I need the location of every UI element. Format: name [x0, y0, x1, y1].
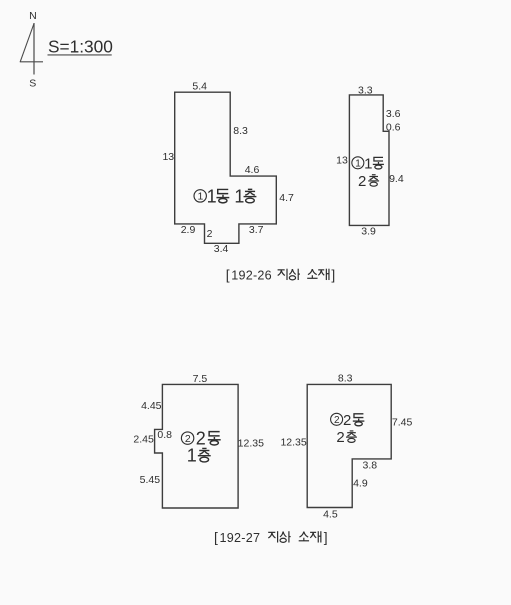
svg-text:7.45: 7.45 [392, 416, 413, 428]
svg-text:1: 1 [355, 158, 361, 169]
north arrow: shaft [33, 23, 35, 75]
svg-text:[: [ [214, 530, 218, 545]
svg-text:5.45: 5.45 [140, 474, 161, 486]
svg-text:192-27: 192-27 [220, 531, 261, 545]
svg-text:]: ] [324, 530, 328, 545]
label b4: 2동 [343, 412, 364, 429]
svg-text:]: ] [331, 267, 335, 282]
svg-text:5.4: 5.4 [192, 81, 207, 93]
svg-text:8.3: 8.3 [338, 372, 353, 384]
svg-text:192-26: 192-26 [231, 268, 272, 282]
svg-text:12.35: 12.35 [238, 438, 264, 450]
svg-text:S: S [29, 78, 36, 90]
svg-text:S=1:300: S=1:300 [48, 37, 113, 57]
svg-text:13: 13 [336, 155, 348, 167]
label b2: 2층 [358, 173, 379, 190]
svg-text:8.3: 8.3 [233, 125, 248, 137]
svg-text:4.7: 4.7 [279, 192, 294, 204]
caption 192-26 [226, 267, 335, 282]
svg-text:4.5: 4.5 [323, 509, 338, 521]
label b4: circled 2 [331, 413, 343, 426]
svg-text:0.6: 0.6 [386, 122, 401, 134]
label b2: circled 1 [352, 157, 364, 170]
svg-text:12.35: 12.35 [280, 437, 306, 449]
svg-text:2: 2 [207, 228, 213, 240]
svg-text:2: 2 [185, 433, 191, 445]
label b4: 2층 [336, 429, 356, 446]
svg-text:N: N [29, 10, 37, 22]
north arrow: crossbar [20, 61, 43, 63]
scale underline [48, 54, 112, 56]
building 3 outline (2-dong 1F) [155, 384, 239, 508]
building 4 outline (2-dong 2F) [307, 384, 391, 507]
svg-text:2.9: 2.9 [181, 224, 196, 236]
svg-text:1: 1 [187, 446, 197, 466]
building 2 outline (1-dong 2F) [349, 95, 389, 226]
svg-text:7.5: 7.5 [193, 373, 208, 385]
svg-text:3.6: 3.6 [386, 108, 401, 120]
svg-text:2: 2 [334, 415, 340, 426]
svg-text:2.45: 2.45 [133, 434, 154, 446]
label b3: 1층 [187, 446, 211, 466]
svg-text:3.9: 3.9 [361, 226, 376, 238]
svg-text:2: 2 [196, 429, 206, 449]
svg-text:4.45: 4.45 [141, 400, 162, 412]
label b1: circled 1 [194, 190, 206, 203]
svg-text:2: 2 [336, 429, 344, 446]
svg-text:4.9: 4.9 [353, 478, 368, 490]
svg-text:2: 2 [343, 412, 351, 429]
svg-text:3.4: 3.4 [214, 243, 229, 255]
svg-text:4.6: 4.6 [245, 164, 260, 176]
building 1 outline (1-dong 1F) [175, 92, 277, 243]
north arrow: diagonal [20, 24, 34, 62]
svg-text:1: 1 [234, 187, 244, 207]
svg-text:0.8: 0.8 [157, 429, 172, 441]
svg-text:1: 1 [207, 187, 217, 207]
caption 192-27 [214, 530, 328, 545]
svg-text:9.4: 9.4 [389, 173, 404, 185]
svg-text:3.3: 3.3 [358, 84, 373, 96]
label b3: circled 2 [181, 432, 193, 445]
svg-text:3.8: 3.8 [362, 459, 377, 471]
svg-text:2: 2 [358, 173, 366, 190]
svg-text:1: 1 [364, 155, 372, 172]
svg-text:3.7: 3.7 [249, 224, 264, 236]
label b3: 2동 [196, 429, 221, 449]
label b2: 1동 [364, 155, 384, 172]
svg-text:[: [ [226, 267, 230, 282]
label b1: 1동 1층 [207, 187, 257, 207]
svg-text:1: 1 [197, 191, 203, 203]
svg-text:13: 13 [162, 151, 174, 163]
